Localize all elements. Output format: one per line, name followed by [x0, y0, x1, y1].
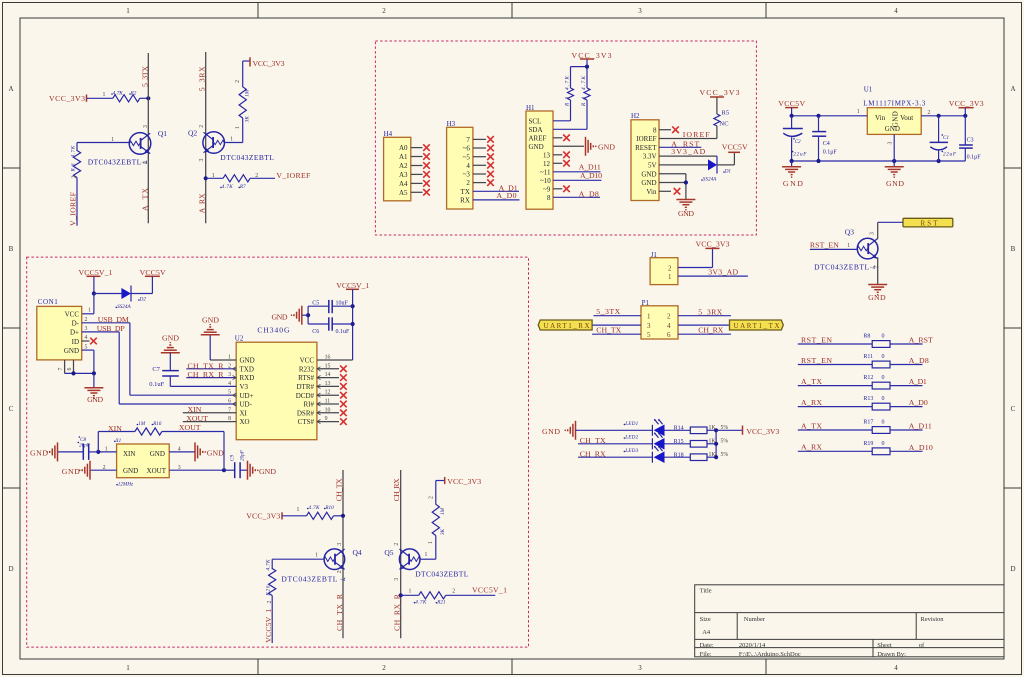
svg-text:VCC5V: VCC5V — [778, 99, 805, 108]
wire 5_3RX / A_RX vertical — [205, 52, 207, 223]
svg-text:5%: 5% — [721, 439, 729, 445]
transistor Q1 — [88, 125, 168, 166]
svg-text:A4: A4 — [702, 629, 711, 636]
resistor R6 4.7K vertical — [70, 143, 81, 226]
svg-text:Q2: Q2 — [188, 129, 197, 138]
svg-text:1M: 1M — [440, 507, 446, 515]
svg-text:3V3_AD: 3V3_AD — [671, 147, 705, 156]
svg-text:IOREF: IOREF — [636, 135, 656, 143]
wire pin1 XIN — [98, 451, 116, 453]
svg-text:6: 6 — [67, 368, 73, 371]
pin direction arrows — [233, 367, 321, 424]
svg-text:4.7K: 4.7K — [113, 90, 123, 97]
shield pins — [64, 360, 66, 374]
pin1 wire — [790, 115, 867, 117]
svg-text:1: 1 — [88, 307, 91, 313]
svg-text:A: A — [1010, 85, 1015, 93]
wire XI / net XIN — [183, 412, 236, 414]
junction — [92, 291, 96, 295]
svg-text:5_3RX: 5_3RX — [698, 307, 722, 316]
svg-text:2: 2 — [928, 110, 931, 116]
svg-text:VCC_3V3: VCC_3V3 — [696, 240, 730, 249]
svg-text:U2: U2 — [235, 334, 244, 342]
svg-text:File:: File: — [700, 651, 712, 658]
svg-text:3V3_AD: 3V3_AD — [708, 267, 738, 276]
svg-text:GND: GND — [678, 209, 694, 218]
svg-text:5_3TX: 5_3TX — [596, 307, 620, 316]
wire to CON1 pin1 — [93, 294, 95, 314]
svg-text:C: C — [1011, 405, 1016, 413]
svg-text:13: 13 — [543, 151, 551, 159]
svg-text:3: 3 — [638, 7, 642, 15]
svg-text:CH_RX: CH_RX — [392, 478, 401, 501]
13,12,~9 no-connects — [553, 154, 562, 156]
svg-text:DTC043ZEBTL: DTC043ZEBTL — [88, 157, 142, 166]
svg-text:DTC043ZEBTL: DTC043ZEBTL — [415, 569, 468, 578]
svg-text:GND: GND — [885, 125, 900, 133]
diode D1 SS24A — [708, 159, 717, 170]
svg-text:RX: RX — [460, 197, 470, 205]
svg-text:GND: GND — [87, 395, 103, 404]
wire pin3 XOUT — [169, 469, 224, 471]
svg-text:B: B — [1011, 245, 1016, 253]
junction Q2 emitter — [204, 176, 208, 180]
svg-text:SDA: SDA — [529, 126, 543, 134]
wire UD+ — [130, 394, 236, 396]
svg-text:SCL: SCL — [529, 117, 542, 125]
svg-text:R17: R17 — [863, 420, 873, 426]
svg-text:of: of — [919, 642, 925, 649]
wire — [140, 97, 149, 99]
svg-text:RST_EN: RST_EN — [801, 356, 832, 365]
GND pin wire + ground — [553, 145, 584, 147]
capacitor C1 22uF — [938, 116, 940, 142]
svg-text:1: 1 — [647, 313, 651, 321]
svg-text:XI: XI — [240, 409, 248, 417]
ground (C8) — [46, 442, 57, 461]
svg-text:4.7K: 4.7K — [264, 559, 271, 571]
svg-text:VCC_3V3: VCC_3V3 — [572, 51, 612, 60]
pin16 VCC wire — [317, 359, 353, 361]
capacitor C6 0.1uF — [308, 323, 329, 325]
svg-text:R15: R15 — [674, 439, 684, 445]
resistor (base pullup) vertical Q2 — [235, 61, 251, 143]
svg-text:XIN: XIN — [188, 405, 202, 414]
wire collector to port — [878, 221, 903, 223]
svg-text:CH_RX_R: CH_RX_R — [393, 593, 402, 631]
svg-text:CTS#: CTS# — [298, 418, 315, 426]
svg-text:4: 4 — [178, 447, 181, 453]
svg-text:4.7K: 4.7K — [309, 504, 321, 511]
svg-text:CON1: CON1 — [38, 298, 59, 306]
svg-text:1: 1 — [297, 507, 300, 513]
svg-text:~4: ~4 — [340, 576, 346, 583]
svg-text:C9: C9 — [230, 455, 236, 461]
svg-text:RXD: RXD — [240, 374, 255, 382]
svg-text:IOREF: IOREF — [683, 130, 711, 139]
svg-text:GND: GND — [886, 179, 904, 188]
svg-text:A3: A3 — [399, 171, 408, 179]
svg-text:8: 8 — [547, 194, 551, 202]
power port VCC_3V3 (H1) — [571, 66, 588, 68]
wire — [87, 97, 113, 99]
port UART1_TX — [730, 320, 784, 330]
svg-text:4.7K: 4.7K — [415, 598, 427, 605]
svg-text:A_TX: A_TX — [140, 188, 149, 211]
svg-text:A_D10: A_D10 — [580, 171, 602, 180]
svg-text:1: 1 — [230, 136, 233, 142]
svg-text:XOUT: XOUT — [186, 414, 208, 423]
svg-text:1: 1 — [126, 664, 130, 672]
resistor R3 4.7K — [553, 120, 571, 122]
svg-text:VCC_3V3: VCC_3V3 — [246, 512, 280, 521]
svg-text:A_D10: A_D10 — [909, 443, 933, 452]
svg-text:3K: 3K — [245, 116, 251, 123]
svg-text:GND: GND — [641, 179, 656, 187]
svg-text:Drawn By:: Drawn By: — [877, 651, 906, 658]
svg-text:0.1μF: 0.1μF — [823, 150, 838, 156]
svg-text:D2: D2 — [139, 297, 147, 303]
svg-text:5: 5 — [647, 331, 651, 339]
svg-text:1: 1 — [212, 173, 215, 179]
svg-text:D: D — [8, 565, 13, 573]
svg-text:1: 1 — [235, 126, 241, 129]
resistor R2 4.7K — [103, 90, 140, 102]
junction Q5 emitter — [399, 593, 403, 597]
svg-text:R4: R4 — [580, 97, 587, 107]
svg-text:C6: C6 — [312, 329, 319, 335]
svg-text:3: 3 — [888, 142, 894, 145]
wire pin2 / net USB_DM — [82, 322, 130, 324]
svg-text:A_D8: A_D8 — [579, 189, 599, 198]
svg-text:USB_DP: USB_DP — [97, 324, 126, 333]
svg-text:5%: 5% — [721, 452, 729, 458]
svg-text:3: 3 — [178, 465, 181, 471]
svg-text:A_D0: A_D0 — [497, 191, 517, 200]
svg-text:USB_DM: USB_DM — [98, 315, 129, 324]
svg-text:1: 1 — [105, 447, 108, 453]
svg-text:Q5: Q5 — [384, 548, 393, 557]
svg-text:R7: R7 — [239, 184, 246, 190]
svg-text:Revision: Revision — [920, 616, 944, 623]
svg-text:CH_TX_R: CH_TX_R — [335, 593, 344, 631]
svg-text:C: C — [9, 405, 14, 413]
power port VCC_3V3 (Q2) — [243, 57, 285, 68]
svg-text:2: 2 — [103, 465, 106, 471]
svg-text:4.7K: 4.7K — [70, 145, 77, 158]
ground (H2) — [676, 200, 695, 211]
svg-text:GND: GND — [123, 467, 138, 475]
svg-text:F:\E\..\Arduino.SchDoc: F:\E\..\Arduino.SchDoc — [739, 651, 801, 658]
capacitor C9 20pF — [224, 469, 235, 471]
svg-text:LM1117IMPX-3.3: LM1117IMPX-3.3 — [863, 100, 926, 108]
ground (Q3) — [868, 285, 887, 296]
svg-text:VCC5V: VCC5V — [722, 143, 748, 152]
svg-text:A_TX: A_TX — [801, 377, 822, 386]
svg-text:~4: ~4 — [142, 159, 148, 166]
svg-text:VCC: VCC — [65, 311, 80, 319]
wire 8 / net A_D8 — [553, 196, 600, 198]
svg-text:GND: GND — [150, 450, 165, 458]
svg-text:XO: XO — [240, 418, 250, 426]
svg-text:22uF: 22uF — [793, 152, 807, 158]
svg-text:C7: C7 — [152, 366, 160, 373]
right pin stubs + no-connects — [317, 369, 339, 422]
svg-text:R13: R13 — [863, 396, 873, 402]
svg-text:2: 2 — [199, 125, 205, 128]
svg-text:3: 3 — [85, 326, 88, 332]
svg-text:10uF: 10uF — [336, 301, 349, 307]
wire UD- — [119, 403, 236, 405]
5V pin wire — [659, 164, 708, 166]
LED LED2 — [651, 438, 653, 449]
svg-text:GND: GND — [240, 357, 255, 365]
svg-text:C1: C1 — [943, 135, 949, 141]
svg-text:R5: R5 — [722, 110, 730, 117]
wire pin2 + ground — [90, 469, 117, 471]
svg-text:RST_EN: RST_EN — [810, 241, 839, 250]
svg-text:4: 4 — [85, 335, 88, 341]
ground (U1) — [893, 161, 895, 167]
wire RXD / net CH_RX_R — [186, 377, 236, 379]
svg-text:R232: R232 — [299, 365, 315, 373]
wire pin1 / net 3V3_AD — [678, 275, 748, 277]
svg-text:GND: GND — [62, 467, 80, 476]
transistor Q2 — [188, 125, 274, 162]
svg-text:TX: TX — [461, 188, 470, 196]
capacitor C8 20pF — [82, 444, 84, 460]
svg-text:Size: Size — [700, 616, 711, 623]
power port VCC_3V3 (Q1) — [49, 94, 87, 103]
svg-text:Vin: Vin — [875, 114, 886, 122]
ground (C9) — [248, 461, 259, 480]
svg-text:CH_RX: CH_RX — [698, 325, 723, 334]
svg-text:VCC_3V3: VCC_3V3 — [700, 88, 740, 97]
capacitor C7 0.1uF — [162, 370, 179, 372]
svg-text:RI#: RI# — [304, 401, 315, 409]
svg-text:0.1uF: 0.1uF — [336, 329, 351, 335]
svg-text:RESET: RESET — [635, 144, 657, 152]
resistor R21 4.7K — [401, 594, 419, 596]
svg-text:2: 2 — [72, 176, 78, 179]
resistor R10 4.7K — [282, 515, 307, 517]
power port VCC_3V3 (R5) — [710, 96, 724, 98]
svg-text:A4: A4 — [399, 180, 408, 188]
svg-text:~4: ~4 — [870, 264, 876, 271]
svg-text:4: 4 — [667, 322, 671, 330]
svg-text:12: 12 — [543, 160, 551, 168]
svg-text:CH_RX_R: CH_RX_R — [188, 370, 225, 379]
svg-text:DSR#: DSR# — [297, 409, 315, 417]
svg-text:A_RX: A_RX — [197, 193, 206, 213]
svg-text:8: 8 — [653, 126, 657, 134]
svg-text:5_3RX: 5_3RX — [197, 66, 206, 91]
svg-text:CH340G: CH340G — [257, 326, 290, 335]
svg-text:VCC_3V3: VCC_3V3 — [447, 477, 481, 486]
svg-text:RST_EN: RST_EN — [801, 335, 832, 344]
resistor R20 4.7K vertical — [271, 559, 273, 569]
left node + ground (C5/C6) — [307, 306, 309, 324]
svg-text:ID: ID — [72, 338, 79, 346]
svg-text:R16: R16 — [152, 421, 162, 427]
wire base / net RST_EN — [810, 248, 857, 250]
resistor R5 NC — [716, 126, 718, 139]
svg-text:R18: R18 — [674, 452, 684, 458]
svg-text:GND: GND — [162, 333, 179, 342]
svg-text:Q3: Q3 — [845, 228, 854, 237]
svg-text:DCD#: DCD# — [296, 392, 315, 400]
svg-text:3: 3 — [869, 232, 875, 235]
IOREF pin wire — [659, 138, 717, 140]
svg-text:1: 1 — [409, 588, 412, 594]
svg-text:4.7K: 4.7K — [222, 183, 234, 190]
wire CH_RX vertical — [400, 470, 402, 638]
svg-text:Title: Title — [700, 588, 712, 595]
USB_DP vertical wire — [118, 332, 120, 404]
svg-text:4: 4 — [894, 664, 898, 672]
pin2 wire — [921, 115, 965, 117]
svg-text:A1: A1 — [399, 153, 408, 161]
svg-text:DTC043ZEBTL: DTC043ZEBTL — [220, 153, 274, 162]
svg-text:4: 4 — [894, 7, 898, 15]
wire base Q1 — [77, 142, 129, 144]
svg-text:Sheet: Sheet — [877, 642, 892, 649]
svg-text:3.3V: 3.3V — [643, 153, 657, 161]
svg-text:3K: 3K — [440, 528, 446, 535]
svg-text:A_TX: A_TX — [801, 421, 822, 430]
pin8 no-connect + IOREF label — [659, 129, 671, 131]
ground rail — [792, 160, 966, 162]
RESET pin wire / net A_RST — [659, 146, 701, 148]
svg-text:1: 1 — [847, 243, 850, 249]
svg-text:GND: GND — [259, 467, 276, 476]
wire ~11 / net A_D11 — [553, 171, 601, 173]
svg-text:A_D0: A_D0 — [909, 398, 928, 407]
svg-text:6: 6 — [667, 331, 671, 339]
svg-text:LED1: LED1 — [624, 421, 638, 427]
ground (CON1) — [93, 373, 95, 387]
svg-text:0: 0 — [882, 334, 885, 340]
svg-text:SS24A: SS24A — [117, 303, 131, 310]
svg-text:GND: GND — [202, 315, 219, 324]
svg-text:VCC_3V3: VCC_3V3 — [949, 99, 984, 108]
svg-text:7: 7 — [466, 136, 470, 144]
AREF no-connect — [553, 137, 562, 139]
svg-text:4.7K: 4.7K — [563, 75, 570, 90]
svg-text:V_IOREF: V_IOREF — [69, 191, 78, 226]
wire ~10 / net A_D10 — [553, 179, 602, 181]
svg-text:CH_TX_R: CH_TX_R — [188, 361, 225, 370]
LED LED3 — [651, 452, 653, 463]
wire base Q2 — [225, 142, 243, 144]
svg-text:0.1uF: 0.1uF — [149, 381, 164, 388]
svg-text:CH_TX: CH_TX — [596, 325, 621, 334]
svg-text:Number: Number — [744, 616, 766, 623]
svg-text:GND: GND — [272, 313, 288, 322]
svg-text:R20: R20 — [265, 585, 271, 596]
svg-text:1: 1 — [425, 552, 428, 558]
transistor Q3 — [814, 228, 879, 272]
transistor Q5 — [399, 549, 420, 570]
svg-text:2: 2 — [428, 496, 434, 499]
svg-text:3: 3 — [337, 543, 343, 546]
pin1 GND wire — [210, 359, 236, 361]
pin4 ID no-connect — [82, 340, 90, 342]
svg-text:1: 1 — [315, 552, 318, 558]
svg-text:~11: ~11 — [540, 168, 551, 176]
svg-text:0: 0 — [882, 420, 885, 426]
capacitor C4 0.1uF — [818, 116, 820, 132]
port RST — [903, 218, 953, 227]
svg-text:A: A — [8, 85, 13, 93]
svg-text:0.1μF: 0.1μF — [967, 154, 982, 160]
svg-text:R11: R11 — [863, 354, 873, 360]
svg-text:A_D8: A_D8 — [909, 356, 929, 365]
svg-text:VCC5V_1: VCC5V_1 — [264, 609, 273, 643]
svg-text:XIN: XIN — [123, 450, 135, 458]
svg-text:1: 1 — [668, 273, 672, 281]
wire XO / net XOUT — [183, 421, 236, 423]
svg-text:H2: H2 — [631, 112, 640, 120]
svg-text:0: 0 — [882, 354, 885, 360]
svg-text:GND: GND — [783, 179, 803, 188]
wire pin3 / net USB_DP — [82, 331, 120, 333]
3.3V pin wire / net 3V3_AD — [659, 155, 717, 157]
svg-text:V_IOREF: V_IOREF — [276, 171, 311, 180]
svg-text:GND: GND — [542, 427, 560, 436]
svg-text:2: 2 — [267, 601, 273, 604]
svg-text:Q4: Q4 — [353, 548, 362, 557]
svg-text:3: 3 — [647, 322, 651, 330]
svg-text:1: 1 — [428, 541, 434, 544]
svg-text:R21: R21 — [436, 599, 446, 605]
svg-text:LED3: LED3 — [624, 448, 638, 454]
pin5 GND wire — [82, 349, 94, 351]
svg-text:VCC_3V3: VCC_3V3 — [253, 59, 285, 68]
wires right — [678, 315, 731, 317]
svg-text:RTS#: RTS# — [298, 374, 314, 382]
svg-text:3: 3 — [638, 664, 642, 672]
svg-text:A_D1: A_D1 — [909, 377, 927, 386]
svg-text:5V: 5V — [648, 162, 657, 170]
svg-text:4: 4 — [466, 162, 470, 170]
wire base Q5 — [420, 558, 436, 560]
wire RX / net A_D0 — [473, 199, 520, 201]
svg-text:R10: R10 — [324, 505, 334, 511]
svg-text:~9: ~9 — [543, 185, 551, 193]
wire base Q4 — [272, 558, 324, 560]
svg-text:A_D11: A_D11 — [909, 422, 932, 431]
svg-text:UD-: UD- — [240, 401, 253, 409]
svg-text:D1: D1 — [724, 169, 732, 175]
LED1 row — [576, 429, 653, 431]
svg-text:A2: A2 — [399, 162, 408, 170]
svg-text:CH_TX: CH_TX — [334, 478, 343, 501]
LED LED1 — [651, 425, 653, 436]
svg-text:1: 1 — [111, 137, 114, 143]
svg-text:~5: ~5 — [463, 153, 471, 161]
capacitor C2 22uF — [791, 116, 793, 129]
svg-text:GND: GND — [868, 293, 886, 302]
svg-text:XOUT: XOUT — [147, 467, 167, 475]
svg-text:UART1_RX: UART1_RX — [544, 322, 590, 330]
svg-text:1M: 1M — [245, 89, 251, 97]
wire TXD / net CH_TX_R — [186, 368, 236, 370]
svg-text:LED2: LED2 — [624, 435, 638, 441]
ground (U2 pin1, inverted) — [201, 324, 220, 335]
svg-text:U1: U1 — [864, 86, 873, 94]
svg-text:DTC043ZEBTL: DTC043ZEBTL — [281, 574, 337, 583]
